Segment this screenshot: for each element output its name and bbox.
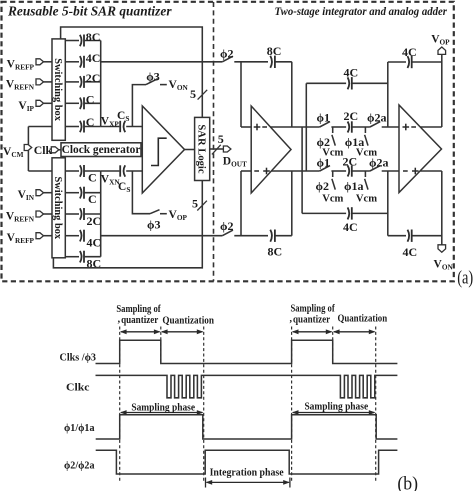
svg-text:ϕ3: ϕ3 [147, 218, 161, 232]
svg-text:Quantization: Quantization [162, 316, 214, 327]
switch phi2a (top) [367, 110, 387, 127]
label (b) [397, 474, 418, 491]
svg-text:8C: 8C [267, 44, 282, 58]
svg-text:Switching box: Switching box [52, 176, 63, 239]
op-amp A2 (second stage / adder) [399, 105, 442, 193]
input pin V_REFP (top) [7, 58, 52, 71]
capacitor C (upper DAC row5) [65, 115, 100, 133]
svg-text:C: C [88, 171, 97, 185]
wire with node ticks (bottom) [331, 171, 346, 177]
switch phi2 (bottom) [220, 219, 234, 236]
svg-text:Clk: Clk [34, 143, 53, 157]
svg-text:VREFN: VREFN [6, 211, 35, 224]
capacitor 2C (lower DAC) [65, 208, 101, 228]
timing label phi2/phi2a [64, 460, 95, 472]
svg-text:C: C [88, 192, 97, 206]
svg-text:Vcm: Vcm [322, 194, 343, 205]
stage-2 input node vertical (top) [387, 62, 389, 127]
timing label Clks/phi3 [60, 353, 97, 364]
wire with node ticks (top) [331, 127, 346, 133]
svg-text:8C: 8C [86, 30, 101, 44]
waveform phi2/phi2a [96, 450, 398, 474]
svg-text:2C: 2C [343, 154, 358, 168]
capacitor 4C feedback stage-2 (top) [388, 45, 442, 68]
svg-text:SAR Logic: SAR Logic [195, 124, 206, 173]
svg-text:Integration phase: Integration phase [210, 467, 285, 478]
svg-text:4C: 4C [402, 45, 417, 59]
svg-text:VIN: VIN [18, 189, 35, 202]
svg-text:ϕ1a: ϕ1a [344, 179, 364, 193]
svg-text:Sampling of: Sampling of [290, 304, 335, 315]
svg-text:4C: 4C [86, 51, 101, 65]
capacitor 4C (lower DAC) [65, 230, 101, 250]
svg-text:(a): (a) [457, 268, 473, 289]
phase boundary dashed line t4 [291, 327, 293, 482]
wire stage-2 output (bottom) and V_ON pin [420, 171, 453, 271]
svg-text:2C: 2C [87, 214, 102, 228]
capacitor 4C coupling (lower) [302, 207, 388, 234]
switch phi1 (top) [317, 110, 331, 127]
input pin V_IN [18, 189, 52, 202]
svg-text:ϕ2: ϕ2 [220, 46, 234, 60]
wire comparator output to SAR Logic [185, 149, 195, 151]
wire phi2 to stage-1 input (top) [234, 62, 268, 127]
svg-text:DOUT: DOUT [223, 155, 247, 168]
capacitor 8C feedback (bottom) [268, 171, 292, 258]
svg-text:ϕ2: ϕ2 [316, 179, 330, 193]
svg-text:ϕ1/ϕ1a: ϕ1/ϕ1a [64, 422, 95, 434]
arrow: sampling of quantizer (period 1) [116, 304, 161, 334]
svg-text:2C: 2C [344, 109, 359, 123]
capacitor 2C (upper DAC) [65, 71, 100, 88]
svg-text:C: C [86, 93, 95, 107]
wire phi2 to stage-1 input (bottom) [234, 171, 268, 236]
crossover wire to upper 4C [305, 83, 307, 171]
switch phi2 to Vcm (upper-left) [317, 135, 344, 159]
svg-text:VCM: VCM [3, 146, 24, 159]
svg-text:Quantization: Quantization [337, 314, 387, 325]
crossover wire to lower 4C [301, 127, 303, 213]
svg-text:VIP: VIP [18, 100, 34, 113]
svg-text:5: 5 [192, 197, 198, 211]
input pin V_REFN (top) [6, 78, 52, 91]
svg-text:ϕ1: ϕ1 [317, 110, 331, 124]
svg-text:Two-stage integrator and analo: Two-stage integrator and analog adder [275, 6, 448, 18]
svg-text:Sampling phase: Sampling phase [131, 402, 195, 413]
capacitor 2C (bottom) [343, 154, 370, 177]
svg-text:Reusable 5-bit SAR quantizer: Reusable 5-bit SAR quantizer [7, 4, 172, 19]
svg-text:5: 5 [190, 87, 196, 101]
arrow: sampling phase (period 2) [292, 401, 376, 415]
switch phi1 (bottom) [317, 156, 331, 171]
label (a) [457, 268, 473, 289]
capacitor 4C feedback stage-2 (bottom) [388, 230, 442, 260]
input pin V_REFN (bottom) [6, 211, 52, 224]
svg-text:VON: VON [169, 79, 189, 92]
svg-text:CS: CS [118, 181, 130, 194]
capacitor 8C (upper DAC) [65, 30, 100, 47]
op-amp A1 (first integrator stage) [241, 106, 291, 193]
capacitor C_S (bottom) [118, 165, 142, 194]
capacitor C (lower DAC row2) [65, 187, 100, 207]
wire stage-2 output (top) and V_OP pin [420, 33, 450, 127]
switching box U1 (upper) [52, 39, 65, 140]
svg-text:Sampling phase: Sampling phase [304, 401, 368, 412]
5-bit control bus (top) from SAR Logic to upper switching box [61, 27, 208, 117]
svg-text:Vcm: Vcm [356, 194, 377, 205]
svg-text:VOP: VOP [169, 209, 188, 222]
dashed divider between quantizer and integrator [213, 2, 215, 281]
capacitor 8C feedback (top) [267, 44, 292, 127]
svg-text:VOP: VOP [431, 33, 450, 46]
svg-text:ϕ2/ϕ2a: ϕ2/ϕ2a [64, 460, 95, 472]
wire stage-1 output (bottom rail) [271, 170, 319, 172]
svg-text:Clks /ϕ3: Clks /ϕ3 [60, 353, 97, 364]
Clk pin [34, 143, 61, 157]
capacitor 4C coupling (upper) [306, 66, 388, 90]
waveform phi1/phi1a [96, 415, 398, 439]
svg-text:4C: 4C [343, 220, 358, 234]
switch phi3 to V_ON (top reset) [132, 70, 188, 127]
svg-text:VREFN: VREFN [6, 78, 35, 91]
svg-text:Clkc: Clkc [66, 382, 90, 394]
input pin V_REFP (bottom) [7, 232, 52, 245]
switch phi2a (bottom) [369, 156, 389, 171]
lower DAC top-plate bus [100, 171, 102, 257]
svg-text:ϕ2: ϕ2 [220, 219, 234, 233]
svg-text:4C: 4C [403, 245, 418, 259]
V_CM pin and rail [3, 127, 52, 172]
capacitor 8C (lower DAC) [65, 251, 101, 271]
svg-text:VON: VON [434, 258, 454, 271]
arrow: sampling of quantizer (period 2) [290, 304, 336, 335]
SAR Logic U4 [195, 117, 210, 180]
svg-text:(b): (b) [397, 474, 418, 491]
svg-text:2C: 2C [86, 71, 101, 85]
arrow: quantization (period 2) [333, 314, 388, 335]
wire phi2a to stage-2 input (top) [382, 126, 399, 128]
timing label Clkc [66, 382, 90, 394]
arrow: quantization (period 1) [161, 316, 214, 335]
svg-text:VREFP: VREFP [7, 232, 35, 245]
dashed border box (a) [2, 2, 454, 282]
switch phi1a to Vcm (upper-right) [345, 135, 377, 159]
clock generator box [61, 143, 142, 157]
input pin V_IP [18, 100, 52, 113]
svg-text:5: 5 [218, 132, 224, 146]
svg-text:Clock generator: Clock generator [62, 144, 141, 156]
waveform Clkc with burst pulses [96, 375, 398, 397]
capacitor C (upper DAC row4) [65, 93, 100, 110]
comparator U3 [142, 106, 184, 193]
timing label phi1/phi1a [64, 422, 95, 434]
svg-text:8C: 8C [268, 244, 283, 258]
svg-text:C: C [86, 115, 95, 129]
stage-2 input node vertical (bottom) [387, 171, 389, 236]
svg-text:VREFP: VREFP [7, 58, 35, 71]
wire stage-1 output (top rail) [270, 126, 320, 128]
upper DAC top-plate bus [100, 41, 102, 127]
phase boundary dashed line t5 [332, 327, 334, 365]
switch phi1a to Vcm (lower-right) [344, 179, 377, 205]
svg-text:quantizer: quantizer [121, 315, 159, 326]
waveform Clks/phi3 [96, 340, 398, 363]
svg-text:ϕ3: ϕ3 [146, 70, 160, 84]
switch phi3 to V_OP (bottom reset) [132, 171, 187, 232]
capacitor 4C (upper DAC) [65, 51, 100, 68]
wire phi2a to stage-2 input (bottom) [382, 170, 399, 172]
switching box U2 (lower) [52, 158, 65, 258]
svg-text:Switching box: Switching box [52, 58, 63, 121]
svg-text:ϕ2a: ϕ2a [369, 156, 389, 170]
svg-text:4C: 4C [344, 66, 359, 80]
phase boundary dashed line t1 [119, 327, 121, 482]
svg-text:ϕ1: ϕ1 [317, 156, 331, 170]
svg-text:4C: 4C [87, 235, 102, 249]
phase boundary dashed line t6 [375, 327, 377, 482]
arrow: integration phase [206, 467, 290, 487]
capacitor 2C (top) [344, 109, 370, 133]
svg-text:CS: CS [117, 110, 129, 123]
5-bit control bus (bottom) from SAR Logic to lower switching box [53, 181, 207, 268]
arrow: sampling phase (period 1) [120, 402, 204, 415]
capacitor C_S (top) [117, 110, 142, 132]
phase boundary dashed line t2 [160, 327, 162, 365]
D_OUT output pin with 5-bit slash [210, 132, 247, 169]
title: Reusable 5-bit SAR quantizer [7, 4, 172, 19]
switch phi2 (top) [220, 46, 234, 62]
svg-text:quantizer: quantizer [293, 315, 331, 326]
capacitor C (lower DAC row1) [65, 165, 100, 185]
wire DAC bottom-plate to phi2 switch (bottom) [101, 235, 223, 237]
phase boundary dashed line t3 [203, 327, 205, 482]
node V_XP wire and label [101, 115, 120, 128]
title: Two-stage integrator and analog adder [275, 6, 448, 18]
node V_XN wire and label [101, 171, 121, 187]
wire DAC top-plate to phi2 switch (top) [101, 61, 223, 63]
svg-text:ϕ2a: ϕ2a [367, 110, 387, 124]
switch phi2 to Vcm (lower-left) [316, 179, 344, 205]
svg-text:Sampling of: Sampling of [116, 304, 161, 315]
